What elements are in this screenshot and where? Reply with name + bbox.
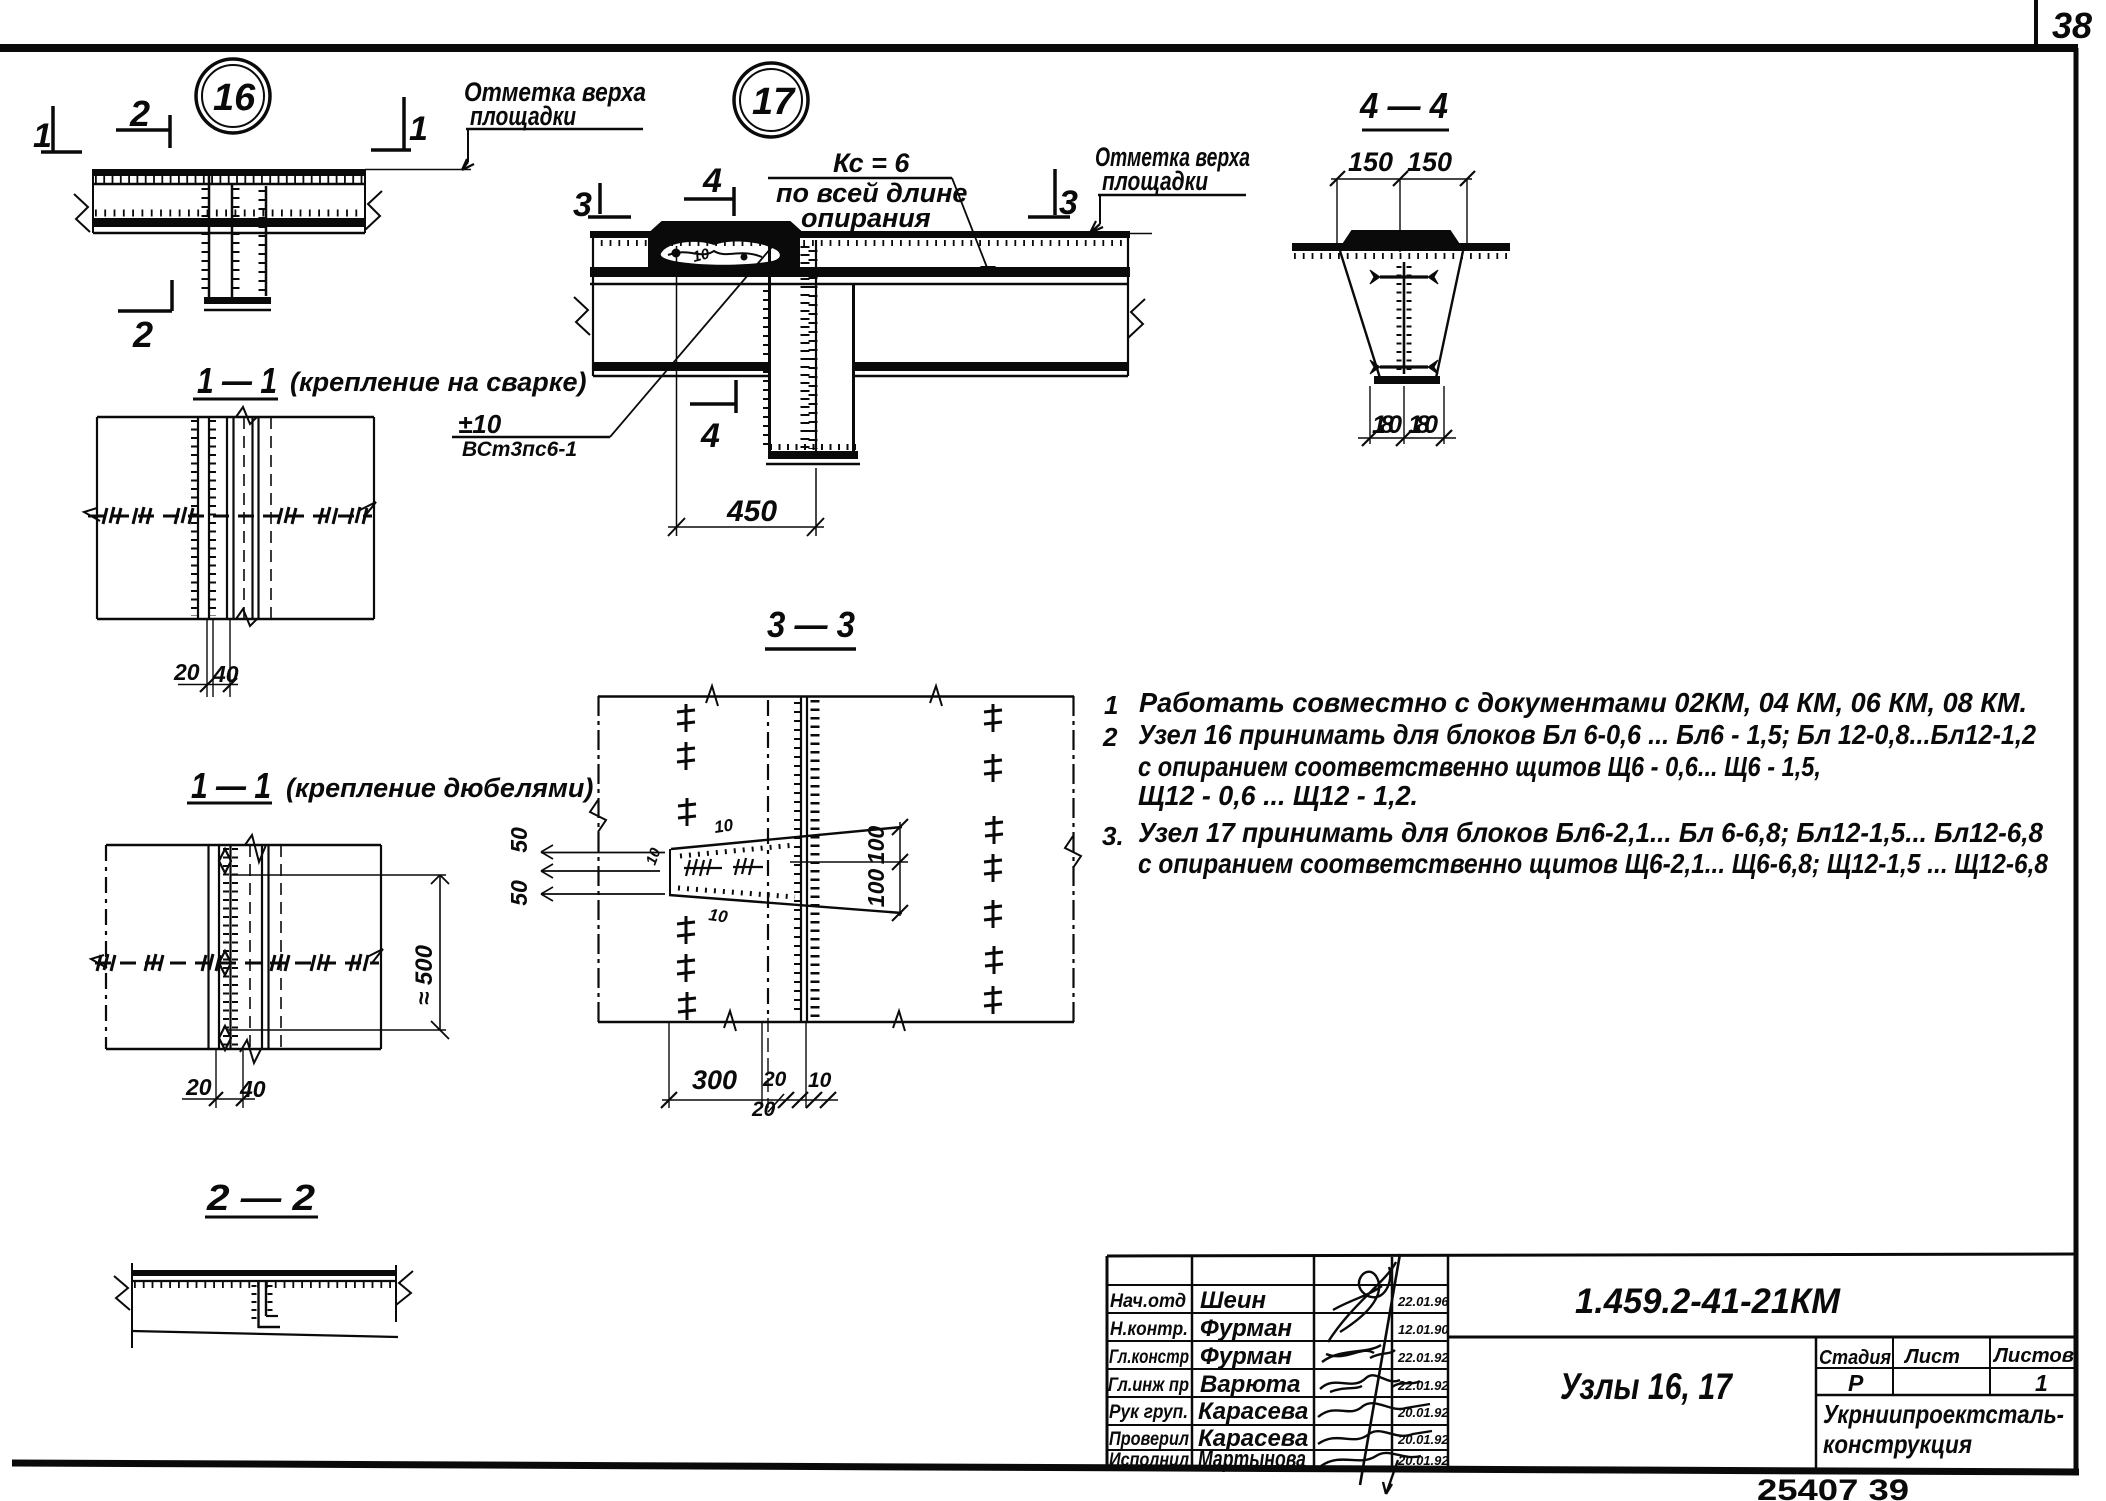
svg-text:Узел 16 принимать для блоков: Узел 16 принимать для блоков Бл 6-0,6 ..…: [1138, 719, 2036, 750]
svg-text:1: 1: [33, 117, 52, 155]
svg-text:22.01.92: 22.01.92: [1397, 1378, 1449, 1393]
svg-text:180: 180: [1408, 411, 1438, 439]
svg-text:Стадия: Стадия: [1819, 1347, 1891, 1369]
svg-text:300: 300: [692, 1065, 737, 1095]
svg-text:Карасева: Карасева: [1198, 1398, 1308, 1425]
svg-text:1: 1: [1104, 690, 1118, 720]
svg-text:Лист: Лист: [1903, 1346, 1960, 1368]
svg-text:4: 4: [700, 417, 720, 455]
svg-text:Работать совместно с документ: Работать совместно с документами 02КМ, 0…: [1139, 687, 2027, 718]
svg-text:12.01.90: 12.01.90: [1398, 1322, 1449, 1337]
svg-text:опирания: опирания: [801, 203, 931, 233]
svg-text:Варюта: Варюта: [1200, 1371, 1300, 1398]
svg-text:Исполнил: Исполнил: [1109, 1450, 1189, 1471]
svg-text:50: 50: [506, 880, 532, 906]
svg-text:Листов: Листов: [1992, 1345, 2074, 1367]
svg-text:2: 2: [132, 314, 153, 355]
svg-text:(крепление дюбелями): (крепление дюбелями): [286, 773, 593, 803]
svg-text:Фурман: Фурман: [1200, 1315, 1293, 1342]
svg-text:1 — 1: 1 — 1: [191, 765, 271, 806]
svg-text:(крепление на сварке): (крепление на сварке): [290, 367, 586, 397]
svg-text:Гл.инж пр: Гл.инж пр: [1108, 1375, 1189, 1396]
svg-text:20: 20: [751, 1098, 776, 1121]
svg-text:2: 2: [129, 93, 150, 134]
svg-text:Щ12 - 0,6 ... Щ12 - 1,2.: Щ12 - 0,6 ... Щ12 - 1,2.: [1138, 780, 1418, 811]
svg-text:50: 50: [506, 827, 532, 853]
svg-text:площадки: площадки: [470, 101, 576, 131]
svg-text:2: 2: [1102, 722, 1118, 752]
svg-text:10: 10: [808, 1069, 832, 1092]
svg-text:1 — 1: 1 — 1: [197, 360, 277, 401]
svg-text:38: 38: [2052, 5, 2092, 46]
svg-text:конструкция: конструкция: [1823, 1429, 1972, 1459]
svg-text:10: 10: [691, 245, 712, 266]
svg-text:1: 1: [2035, 1370, 2048, 1396]
svg-text:Укрниипроектсталь-: Укрниипроектсталь-: [1823, 1399, 2064, 1429]
svg-text:Фурман: Фурман: [1200, 1343, 1293, 1370]
svg-text:Р: Р: [1848, 1370, 1864, 1396]
svg-text:Нач.отд: Нач.отд: [1110, 1291, 1186, 1312]
svg-text:≈ 500: ≈ 500: [411, 944, 438, 1005]
svg-text:10: 10: [643, 845, 665, 867]
svg-text:Узлы 16, 17: Узлы 16, 17: [1560, 1366, 1734, 1407]
svg-text:20: 20: [173, 659, 200, 685]
svg-text:20.01.92: 20.01.92: [1397, 1432, 1449, 1447]
svg-text:22.01.92: 22.01.92: [1397, 1350, 1449, 1365]
svg-text:ВСт3пс6-1: ВСт3пс6-1: [462, 438, 577, 461]
svg-text:4: 4: [702, 162, 722, 200]
svg-text:20: 20: [185, 1074, 212, 1100]
svg-text:20: 20: [762, 1068, 787, 1091]
svg-text:150: 150: [1348, 147, 1393, 177]
svg-text:Проверил: Проверил: [1109, 1429, 1189, 1450]
svg-text:20.01.92: 20.01.92: [1397, 1453, 1449, 1468]
svg-text:2 — 2: 2 — 2: [206, 1177, 315, 1218]
svg-text:150: 150: [1407, 147, 1452, 177]
svg-text:Кс = 6: Кс = 6: [833, 148, 910, 178]
svg-text:10: 10: [707, 905, 729, 927]
svg-text:22.01.96: 22.01.96: [1397, 1294, 1449, 1309]
svg-text:3.: 3.: [1102, 821, 1124, 851]
svg-text:4 — 4: 4 — 4: [1359, 85, 1448, 126]
svg-text:Гл.констр: Гл.констр: [1109, 1347, 1189, 1368]
svg-text:40: 40: [212, 661, 239, 687]
svg-text:3 — 3: 3 — 3: [767, 604, 855, 645]
svg-text:3: 3: [573, 186, 592, 224]
svg-text:площадки: площадки: [1102, 166, 1208, 196]
svg-text:25407 39: 25407 39: [1757, 1474, 1909, 1501]
svg-text:Мартынова: Мартынова: [1198, 1446, 1306, 1473]
svg-text:100: 100: [863, 869, 889, 908]
svg-text:1: 1: [409, 110, 428, 148]
svg-text:3: 3: [1059, 184, 1078, 222]
svg-text:1.459.2-41-21КМ: 1.459.2-41-21КМ: [1575, 1282, 1841, 1321]
svg-text:100: 100: [863, 826, 889, 865]
svg-text:17: 17: [752, 81, 796, 123]
svg-text:Н.контр.: Н.контр.: [1110, 1319, 1188, 1340]
svg-text:450: 450: [726, 495, 777, 528]
svg-text:16: 16: [213, 77, 256, 119]
svg-text:Рук груп.: Рук груп.: [1109, 1402, 1188, 1423]
svg-text:40: 40: [239, 1076, 266, 1102]
svg-text:Узел 17 принимать для блоков: Узел 17 принимать для блоков Бл6-2,1... …: [1138, 817, 2043, 848]
svg-text:10: 10: [713, 815, 735, 837]
svg-text:180: 180: [1372, 411, 1402, 439]
svg-text:20.01.92: 20.01.92: [1397, 1405, 1449, 1420]
svg-text:Шеин: Шеин: [1200, 1287, 1267, 1314]
svg-text:±10: ±10: [458, 409, 502, 439]
svg-text:с опиранием соответственно щи: с опиранием соответственно щитов Щ6-2,1.…: [1138, 848, 2048, 879]
svg-text:с опиранием соответственно щ: с опиранием соответственно щитов Щ6 - 0,…: [1138, 751, 1821, 782]
